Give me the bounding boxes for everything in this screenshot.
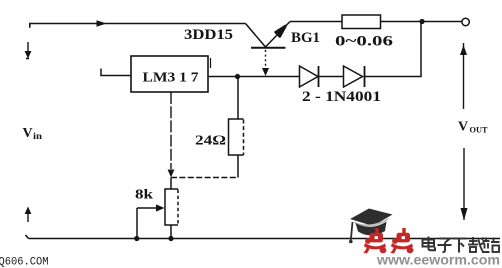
wire LM317 output [208,76,300,78]
svg-text:BG1: BG1 [291,30,320,46]
svg-text:0~0.06: 0~0.06 [335,34,393,50]
diode D1 1N4001 [300,66,319,87]
svg-text:24Ω: 24Ω [195,133,226,148]
wire base drive (dotted, arrow down) [262,50,269,76]
svg-text:3DD15: 3DD15 [184,27,233,43]
node junction top right [419,19,424,24]
wire pot bottom [170,225,172,239]
transistor Q1 emitter with arrow [266,22,291,48]
svg-text:8k: 8k [135,188,153,203]
node junction wiper-rail [134,236,139,241]
watermark text zai (载) [468,237,485,253]
wire ADJ node horizontal [171,177,238,179]
potentiometer RP 8k body [165,189,178,225]
node Vout lower arrow [461,148,468,221]
svg-text:V: V [23,126,33,141]
watermark insect character 1 [363,228,386,254]
svg-text:www.eeworm.com: www.eeworm.com [376,252,500,268]
wire LM317 input stub [101,69,131,76]
wire shunt to output terminal [381,21,462,23]
wire to 240 ohm [237,77,239,120]
svg-text:Q606.COM: Q606.COM [0,257,49,268]
diode D2 1N4001 [344,66,365,87]
svg-text:in: in [33,132,43,142]
wire LM317 ADJ (dashed, arrow down) [168,92,175,178]
node junction pot-rail [168,236,173,241]
wire between diodes [319,76,344,78]
watermark insect character 2 [390,228,413,254]
wire bottom rail [26,235,501,239]
watermark text dian (电) [423,237,436,251]
wire emitter to shunt [290,21,342,23]
op-amp U1 LM317 regulator box [131,56,208,92]
Vin annotation arrow down [25,42,32,59]
wire pot top [170,178,172,190]
wire wiper to rail [136,208,138,239]
node Vout upper arrow [460,43,467,109]
watermark graduation cap [349,209,393,244]
node junction at 240 ohm tap [235,74,240,79]
transistor Q1 base bar [251,47,286,49]
potentiometer wiper arrow [137,204,165,211]
Vin annotation arrow up [25,207,32,223]
wire 240 ohm bottom [237,155,239,178]
resistor R2 240 ohm [229,119,244,155]
arrow on top rail [97,20,107,26]
svg-text:2 - 1N4001: 2 - 1N4001 [302,89,381,105]
wire diode output riser [365,22,422,77]
resistor R1 shunt 0~0.06 [342,15,381,29]
transistor Q1 3DD15 collector [246,24,266,48]
watermark text zhan (站) [482,238,500,253]
watermark text xia (下) [453,239,467,253]
watermark text zi (子) [438,239,452,252]
svg-text:OUT: OUT [470,126,489,135]
output terminal circle [462,18,469,25]
svg-text:LM3 1 7: LM3 1 7 [143,71,199,86]
svg-text:V: V [458,120,468,135]
wire top rail [29,24,246,28]
